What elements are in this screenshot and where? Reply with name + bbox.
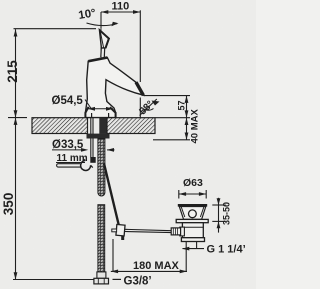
ext line deck top level xyxy=(156,117,191,119)
dim line 110 xyxy=(101,10,140,117)
extension line top (lever top level) xyxy=(14,28,97,30)
arrow top of 215 xyxy=(14,29,18,36)
hose end nut G3/8 xyxy=(94,278,109,284)
centerline xyxy=(100,12,102,58)
ext line 40max bottom xyxy=(153,139,190,141)
drain funnel xyxy=(179,207,206,220)
58 deg ray xyxy=(140,99,157,116)
drain body xyxy=(182,223,203,238)
paper noise overlay xyxy=(0,0,256,289)
drain flange plate xyxy=(176,219,208,222)
arrow bottom of 350 xyxy=(14,272,18,279)
spout tip face (dark) xyxy=(136,82,143,95)
handle swing arc xyxy=(87,23,118,26)
diagonal rod xyxy=(104,164,119,227)
clamp joint xyxy=(116,224,125,235)
handle lever blade xyxy=(99,30,109,48)
extension line bottom (hose end level) xyxy=(13,279,95,281)
clamp stub left xyxy=(112,229,117,232)
ext line spout tip level xyxy=(144,95,191,97)
deck hatched right part xyxy=(107,118,155,134)
rod end block xyxy=(90,157,95,163)
clamp pin bottom xyxy=(121,236,124,240)
hose segment 1 xyxy=(98,139,105,197)
hose ferrule xyxy=(97,272,106,278)
horizontal rod to drain xyxy=(125,229,172,232)
paper background xyxy=(0,0,256,289)
threaded shank through deck (dark) xyxy=(99,118,106,134)
body top cap thick line xyxy=(88,58,107,62)
handle stem xyxy=(101,48,105,57)
wrench icon xyxy=(57,159,93,171)
base flare feet dark edges xyxy=(85,107,88,118)
drain rim xyxy=(178,204,207,207)
mounting nut under deck xyxy=(87,134,110,139)
deck hatched left part xyxy=(32,118,88,134)
ball rod fitting knurled nut xyxy=(180,227,185,236)
58 deg arc xyxy=(142,108,154,111)
pop-up rod vertical xyxy=(91,118,93,158)
dim line 215/350 vertical xyxy=(15,29,17,279)
faucet body with spout xyxy=(85,58,143,118)
tick at deck level xyxy=(8,110,27,125)
drain funnel inner walls xyxy=(181,207,204,217)
dim line 57/40max xyxy=(186,96,188,140)
drain plug circle xyxy=(189,210,197,218)
dim arrows base xyxy=(88,108,113,110)
leader 33,5 xyxy=(52,149,82,151)
hose segment 2 xyxy=(98,205,105,272)
58 deg arrowhead xyxy=(152,101,160,106)
drain bottom band xyxy=(181,238,204,242)
leader xyxy=(85,100,91,109)
